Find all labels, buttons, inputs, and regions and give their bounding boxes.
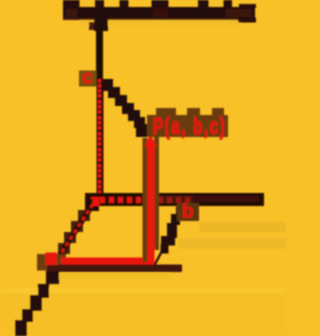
jpeg artifact band below red horizontal bbox=[57, 273, 170, 279]
y-axis bar maroon core (right half) bbox=[193, 196, 259, 202]
segment a to Q (red solid horizontal) bbox=[61, 258, 154, 265]
y-axis red dashes (past P line, darker) bbox=[158, 197, 190, 203]
jpeg artifact light band bottom bbox=[0, 288, 286, 294]
segment a to Q shadow (black under-edge) bbox=[59, 265, 182, 273]
jpeg artifact dull zone bottom bbox=[0, 294, 286, 336]
tall letter column D bbox=[152, 0, 169, 8]
segment Q to B (black staircase) bbox=[155, 207, 187, 266]
x-axis staircase tail (a to bottom edge) bbox=[15, 268, 59, 336]
text band letter shimmer 2 bbox=[153, 9, 168, 17]
x-axis staircase halo blocks (origin to a) bbox=[52, 210, 90, 268]
svg-text:c: c bbox=[82, 68, 93, 89]
origin red dot bbox=[93, 197, 100, 206]
street-name text band (cut off at top) body bbox=[63, 7, 255, 18]
z-axis dashed segment backing (c to origin) bbox=[97, 80, 104, 197]
x-axis dashed core (origin to a) bbox=[58, 204, 93, 258]
a label (red blob) bbox=[46, 253, 58, 266]
text band last word top block bbox=[239, 4, 256, 8]
tall letter column A bbox=[63, 0, 80, 8]
jpeg artifact band right upper bbox=[199, 222, 286, 232]
P label box tab 1 bbox=[156, 108, 176, 116]
tall letter column E bbox=[198, 0, 209, 8]
P label box main bbox=[147, 115, 228, 137]
x-axis origin block bbox=[85, 199, 99, 211]
P label box tab 2 bbox=[187, 108, 200, 116]
jpeg artifact band below top bar bbox=[80, 20, 240, 26]
tall letter column B bbox=[95, 0, 104, 8]
z-axis arrowhead left noise blob bbox=[89, 22, 94, 30]
a marker box dark lower part bbox=[47, 265, 66, 271]
red vertical halo right bbox=[154, 136, 159, 250]
tall letter column C bbox=[120, 0, 129, 8]
c marker box bbox=[79, 71, 97, 87]
red arrowhead at P bbox=[145, 134, 157, 148]
z-axis line bbox=[96, 28, 103, 82]
red vertical halo left bbox=[143, 138, 148, 262]
svg-text:b: b bbox=[182, 202, 194, 223]
tall letter column F bbox=[224, 0, 233, 8]
z-axis red dots bbox=[98, 79, 101, 193]
segment Q to P (red solid vertical) bbox=[148, 142, 155, 264]
text band letter shimmer 1 bbox=[66, 9, 77, 17]
text band last word descender block bbox=[238, 18, 256, 23]
segment C to P (black staircase) bbox=[101, 79, 153, 137]
y-axis bar bbox=[85, 193, 264, 206]
P label box tab 3 bbox=[212, 108, 224, 116]
a marker box bbox=[37, 254, 66, 271]
y-axis maroon zone past P line bbox=[156, 196, 193, 204]
text band baseline smear bbox=[63, 18, 255, 20]
text band letter shimmer 3 bbox=[226, 9, 252, 17]
b marker box bbox=[177, 203, 199, 221]
z-axis arrowhead / band junction bbox=[94, 17, 108, 31]
jpeg artifact band right lower bbox=[178, 238, 286, 249]
y-axis red dashes (origin to P line, bright) bbox=[91, 197, 148, 203]
